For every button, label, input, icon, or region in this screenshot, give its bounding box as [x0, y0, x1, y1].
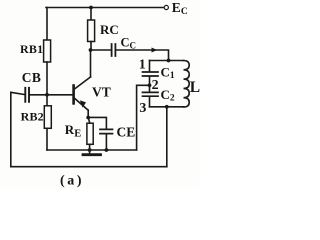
wire tank bottom: [150, 106, 184, 108]
resistor RC: [88, 20, 95, 42]
wire CC to tank: [116, 50, 168, 61]
wire emitter ground bus: [47, 149, 137, 151]
inductor L: [184, 61, 190, 108]
node tank top: [167, 59, 171, 63]
wire tank left lower: [149, 97, 151, 107]
wire base to transistor: [47, 94, 72, 96]
node RE ground: [88, 148, 92, 152]
wire collector vertical: [90, 50, 92, 77]
wire collector to CC: [91, 49, 112, 51]
wire RC top: [90, 8, 92, 21]
svg-text:1: 1: [139, 58, 146, 73]
svg-text:RC: RC: [100, 22, 119, 37]
wire tank bottom to rail: [166, 107, 168, 167]
wire RE bottom: [89, 144, 91, 150]
node 2: [148, 83, 152, 87]
svg-text:CE: CE: [117, 125, 136, 140]
wire left vertical: [10, 92, 12, 166]
wire RB2 bottom: [46, 128, 48, 150]
terminal E_C: [164, 5, 168, 9]
wire bottom feedback rail: [11, 166, 167, 168]
node tank bottom: [165, 105, 169, 109]
wire tank left upper: [149, 61, 151, 72]
wire node2 tap: [137, 85, 150, 150]
wire top rail: [46, 7, 164, 9]
arrowhead on wire: [152, 48, 158, 53]
node base junction: [45, 93, 49, 97]
node collector: [89, 48, 93, 52]
wire tank left middle: [149, 77, 151, 92]
svg-text:3: 3: [139, 101, 146, 116]
svg-text:RB1: RB1: [20, 42, 43, 56]
wire emitter vertical: [87, 110, 89, 117]
resistor RB2: [44, 106, 51, 129]
svg-text:CB: CB: [22, 70, 41, 85]
svg-text:RB2: RB2: [21, 109, 44, 123]
wire emitter to CE: [88, 117, 106, 128]
node CE ground: [105, 148, 109, 152]
svg-text:L: L: [190, 79, 200, 96]
wire input stub: [11, 92, 25, 94]
resistor RE: [87, 123, 93, 144]
node emitter: [86, 116, 90, 120]
wire RB column top: [46, 8, 48, 41]
capacitor CE: [100, 129, 113, 133]
capacitor C2: [143, 92, 159, 96]
resistor RB1: [44, 40, 51, 62]
capacitor C1: [143, 72, 159, 76]
ground: [89, 150, 91, 153]
wire emitter to RE: [88, 117, 90, 123]
transistor VT: [74, 77, 91, 110]
node RC top: [89, 6, 93, 10]
wire RB column mid: [46, 62, 48, 105]
svg-text:(a): (a): [60, 173, 84, 188]
capacitor CC: [112, 44, 116, 56]
wire CB to base junction: [30, 94, 47, 96]
capacitor CB: [25, 88, 29, 102]
svg-text:2: 2: [152, 78, 159, 93]
svg-text:VT: VT: [92, 85, 111, 100]
wire RC bottom: [90, 42, 92, 51]
wire CE bottom: [105, 134, 107, 150]
wire tank top: [150, 60, 184, 62]
